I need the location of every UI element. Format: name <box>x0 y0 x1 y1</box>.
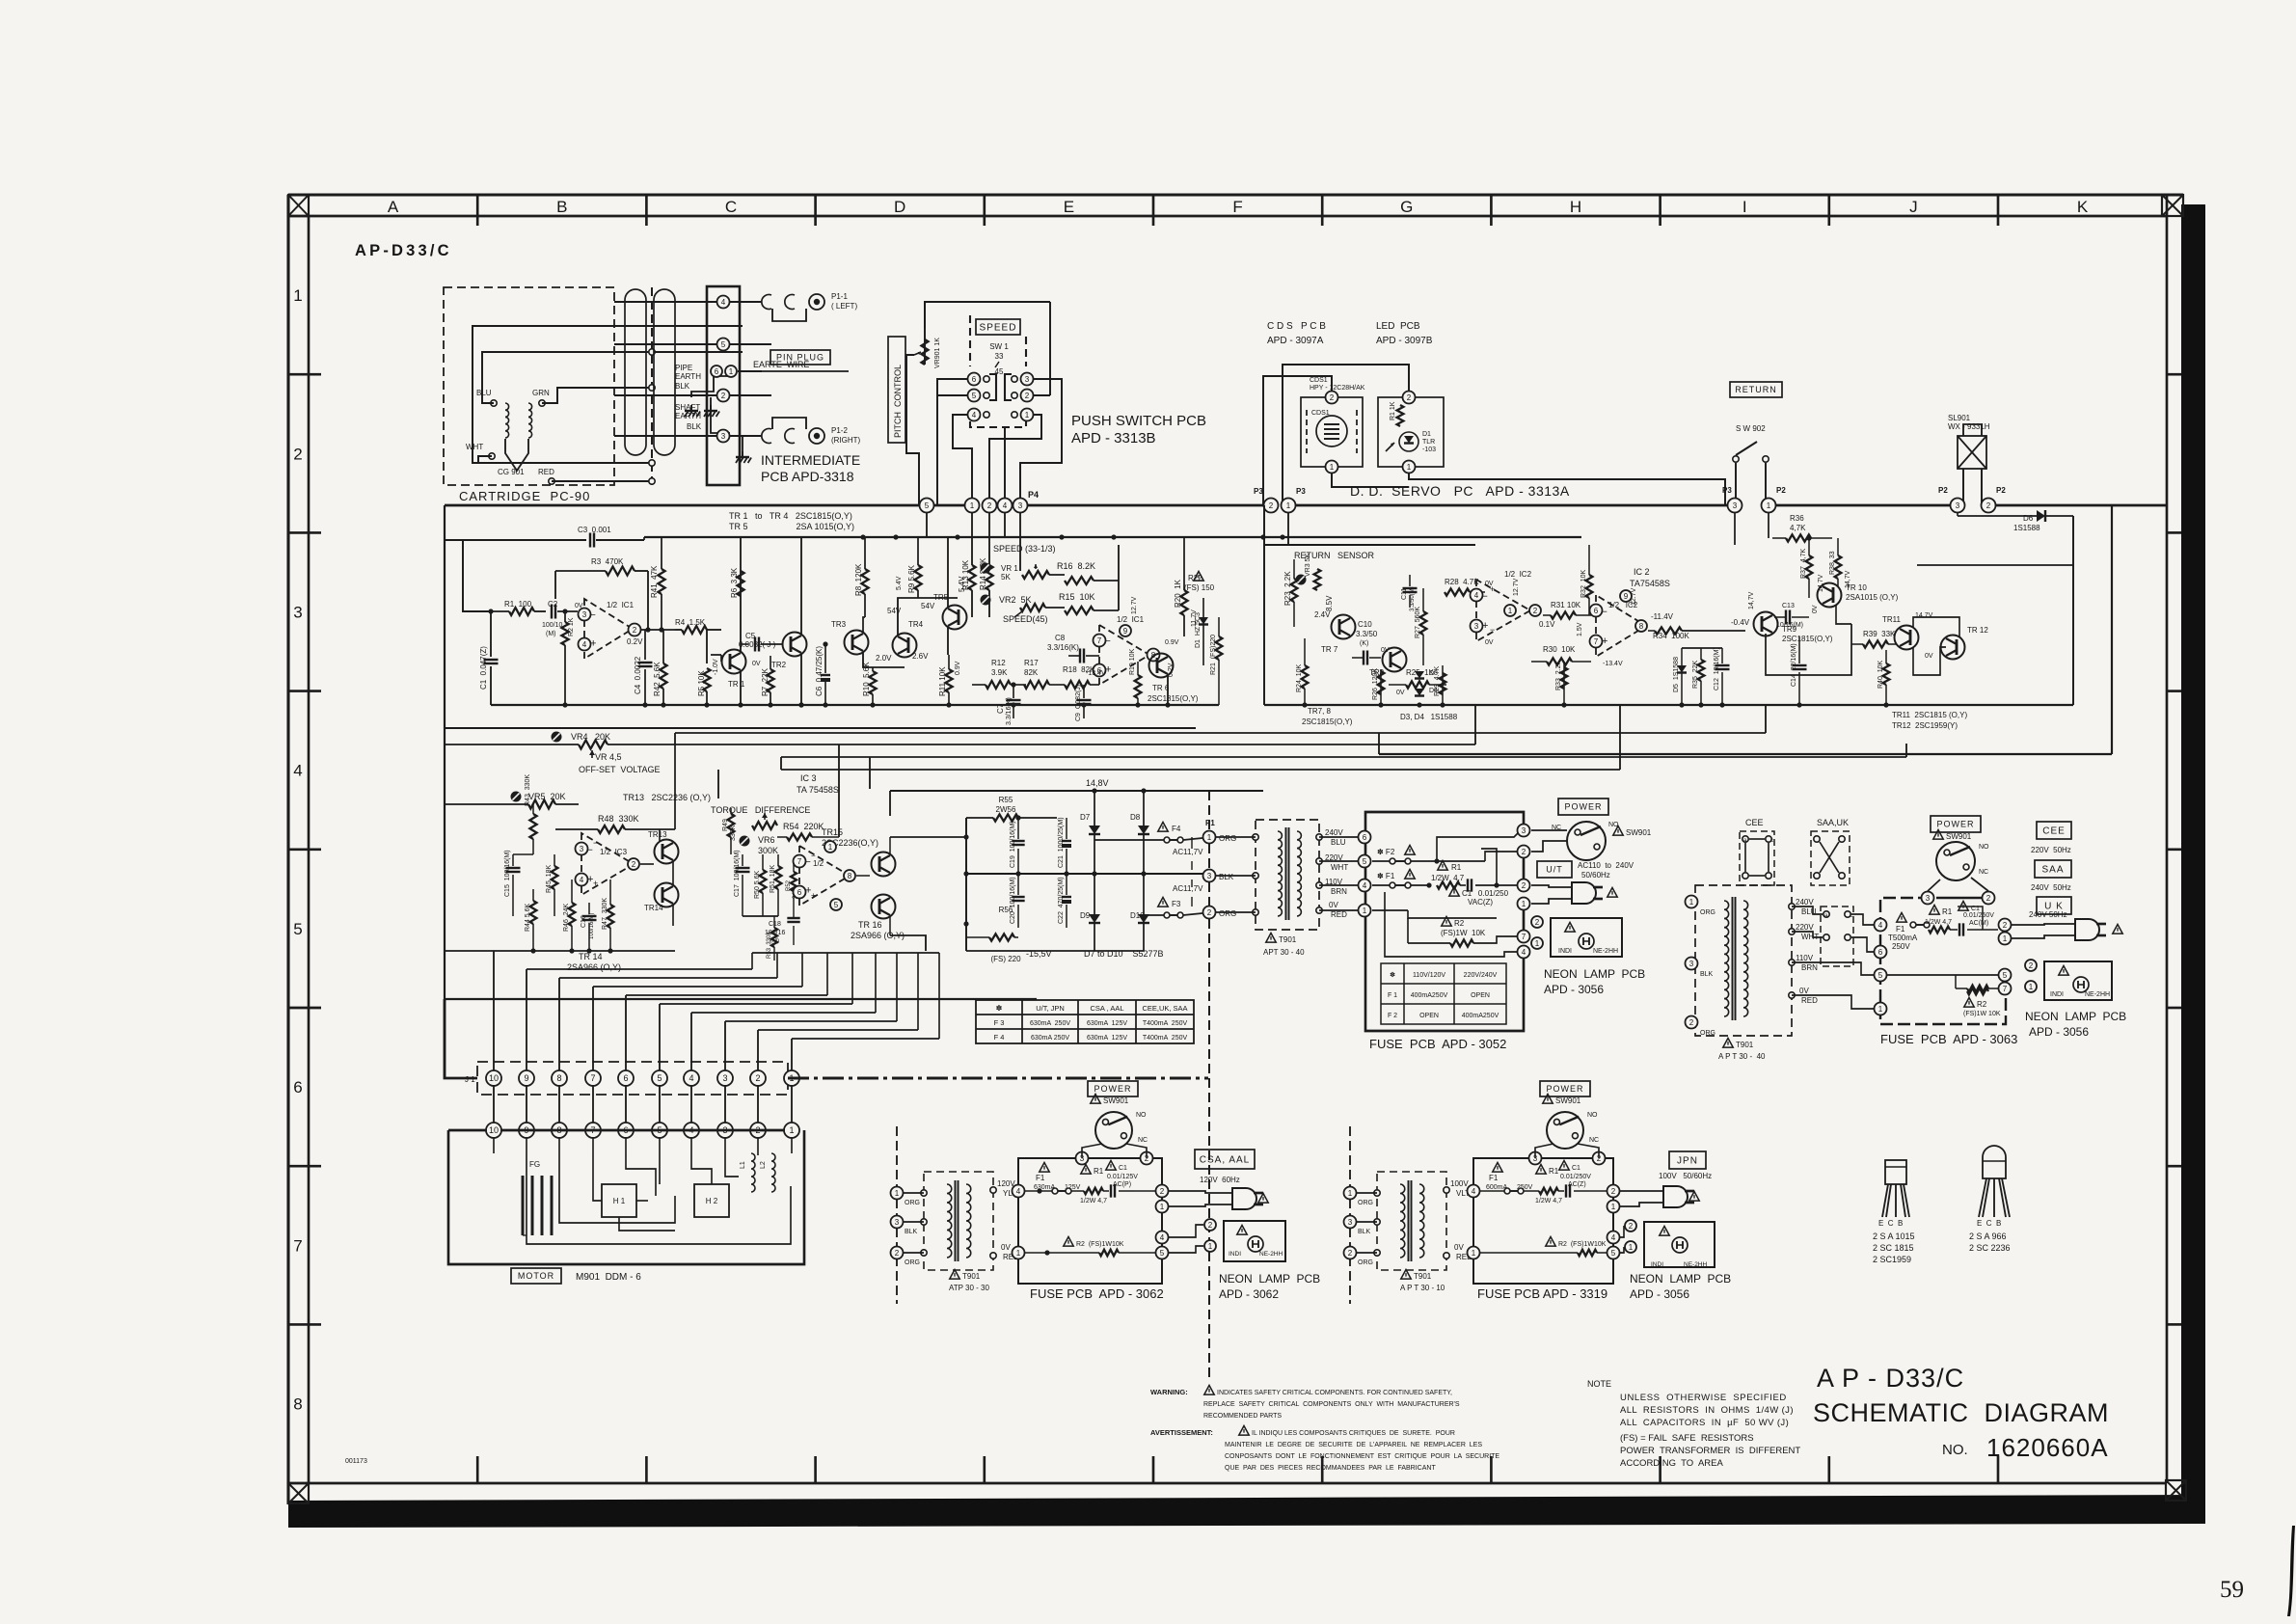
rectifier bottom rail <box>966 950 1144 952</box>
CSA terminals <box>891 1187 904 1200</box>
svg-text:4: 4 <box>582 640 587 649</box>
svg-text:T901: T901 <box>962 1272 981 1281</box>
svg-text:3.3/16(K): 3.3/16(K) <box>1006 697 1013 725</box>
fan horizontal collectors <box>527 968 752 970</box>
connector P4 pin 1 <box>965 499 980 513</box>
svg-text:TR4: TR4 <box>908 620 924 629</box>
svg-text:IL INDIQU LES COMPOSANTS CRITI: IL INDIQU LES COMPOSANTS CRITIQUES DE SU… <box>1252 1430 1455 1437</box>
plug JPN <box>1663 1186 1688 1207</box>
svg-text:WHT: WHT <box>466 443 483 451</box>
svg-text:2: 2 <box>1207 908 1212 917</box>
svg-text:1: 1 <box>1016 1249 1021 1258</box>
svg-text:TR 7: TR 7 <box>1321 645 1338 654</box>
svg-text:INDI: INDI <box>1229 1251 1241 1258</box>
svg-text:3: 3 <box>895 1218 900 1227</box>
svg-text:2SA1015 (O,Y): 2SA1015 (O,Y) <box>1846 593 1899 602</box>
svg-text:OPEN: OPEN <box>1419 1013 1439 1019</box>
fuse rect JPN <box>1473 1158 1613 1284</box>
power switch SW901 main <box>1567 822 1606 860</box>
chain column CSA <box>896 1126 898 1304</box>
shield oval left <box>625 289 646 455</box>
svg-text:2SA966 (O,Y): 2SA966 (O,Y) <box>567 962 621 972</box>
mid drops to fan collectors <box>867 951 869 969</box>
svg-text:0V: 0V <box>1001 1243 1011 1252</box>
svg-text:630mA 250V: 630mA 250V <box>1031 1035 1069 1042</box>
R1 CSA <box>1081 1165 1091 1175</box>
svg-text:AVERTISSEMENT:: AVERTISSEMENT: <box>1150 1428 1213 1437</box>
svg-text:2: 2 <box>987 501 992 510</box>
label SAA 240V 50Hz <box>2035 860 2071 878</box>
svg-text:L2: L2 <box>760 1161 767 1169</box>
servo right boundary <box>2111 505 2113 754</box>
transformer T901 APT30-40 dashed box <box>1256 820 1319 930</box>
connector P4 pin 4 <box>998 499 1013 513</box>
fuse selection table F3 F4 <box>976 1000 1194 1043</box>
svg-text:8: 8 <box>293 1395 302 1414</box>
svg-text:R16 8.2K: R16 8.2K <box>1057 561 1095 571</box>
svg-text:0V: 0V <box>752 661 761 667</box>
svg-text:3: 3 <box>582 610 587 619</box>
svg-text:ORG: ORG <box>1219 909 1236 918</box>
svg-text:A: A <box>388 198 399 216</box>
svg-text:M901 DDM - 6: M901 DDM - 6 <box>576 1272 641 1283</box>
svg-text:POWER: POWER <box>1936 820 1974 829</box>
svg-text:ORG: ORG <box>905 1259 920 1266</box>
svg-text:POWER: POWER <box>1564 802 1602 812</box>
svg-text:4: 4 <box>580 876 584 884</box>
svg-text:OFF-SET VOLTAGE: OFF-SET VOLTAGE <box>579 765 661 774</box>
svg-text:BLK: BLK <box>675 382 690 391</box>
svg-text:NOTE: NOTE <box>1587 1379 1611 1389</box>
svg-text:1: 1 <box>1208 1242 1213 1251</box>
svg-text:EARTH: EARTH <box>675 372 701 381</box>
transistor TR4 <box>893 634 917 658</box>
svg-text:R43 330K: R43 330K <box>525 774 531 806</box>
svg-text:2: 2 <box>1629 1222 1634 1231</box>
svg-text:2: 2 <box>1269 501 1274 510</box>
svg-text:APD - 3062: APD - 3062 <box>1219 1287 1279 1301</box>
LED arrow mark <box>1386 443 1394 451</box>
svg-text:3: 3 <box>1207 872 1212 880</box>
svg-text:R21 (FS)220: R21 (FS)220 <box>1210 635 1217 675</box>
svg-text:(K): (K) <box>1360 640 1368 647</box>
RCA jack P1-1 <box>809 294 824 310</box>
svg-text:4: 4 <box>721 298 726 307</box>
svg-text:AC110 to 240V: AC110 to 240V <box>1578 861 1634 870</box>
svg-text:NO.: NO. <box>1942 1442 1968 1458</box>
svg-text:F 3: F 3 <box>994 1018 1005 1027</box>
JPN terminals <box>1344 1187 1357 1200</box>
svg-text:5: 5 <box>972 392 977 400</box>
svg-text:SPEED(45): SPEED(45) <box>1003 614 1048 624</box>
chain line P1 column <box>1208 791 1210 830</box>
svg-text:3: 3 <box>1956 501 1960 510</box>
label SPEED box <box>976 319 1020 335</box>
svg-text:001173: 001173 <box>345 1458 367 1465</box>
svg-text:S W 902: S W 902 <box>1736 424 1766 433</box>
screw VR6 <box>740 836 750 847</box>
svg-text:VR 1: VR 1 <box>1001 564 1018 573</box>
svg-text:R15 10K: R15 10K <box>1059 592 1095 602</box>
svg-text:R56: R56 <box>999 906 1013 914</box>
svg-text:AC11,7V: AC11,7V <box>1173 848 1203 856</box>
row grid ticks right <box>2167 373 2181 376</box>
svg-text:CEE,UK, SAA: CEE,UK, SAA <box>1142 1004 1187 1013</box>
resistor R1 3063 <box>1930 906 1939 915</box>
svg-text:PUSH SWITCH PCB: PUSH SWITCH PCB <box>1071 413 1206 429</box>
svg-text:−: − <box>1490 625 1495 635</box>
svg-text:2: 2 <box>1522 881 1526 890</box>
svg-text:MAINTENIR LE DEGRE DE SECU: MAINTENIR LE DEGRE DE SECURITE DE L'APPA… <box>1225 1442 1482 1448</box>
wire speed net vertical 1160 <box>1118 544 1120 546</box>
svg-text:5: 5 <box>1878 971 1883 980</box>
label MOTOR M901 DDM-6 <box>511 1268 561 1284</box>
svg-text:7: 7 <box>293 1236 302 1255</box>
svg-text:R2 1K: R2 1K <box>568 617 575 636</box>
svg-text:2SC1815(O,Y): 2SC1815(O,Y) <box>1782 635 1833 643</box>
svg-text:R3 470K: R3 470K <box>591 557 624 566</box>
svg-text:1620660A: 1620660A <box>1986 1433 2109 1462</box>
pot VR901 1K <box>922 339 929 365</box>
POWER box CSA <box>1088 1081 1138 1096</box>
chain riser from servo right to power <box>2072 705 2074 757</box>
svg-text:59: 59 <box>2220 1577 2244 1603</box>
svg-text:ALL CAPACITORS IN µF 50 WV: ALL CAPACITORS IN µF 50 WV (J) <box>1620 1418 1789 1428</box>
wire IC3 out to caps <box>890 836 966 838</box>
wire bundle right servo to bottom <box>1765 732 1767 734</box>
fuse F1 JPN <box>1493 1163 1502 1173</box>
svg-text:BLK: BLK <box>1700 971 1714 978</box>
screw VR3 <box>1296 575 1307 585</box>
bottom black margin bar <box>288 1495 2205 1528</box>
svg-text:R2 (FS)1W10K: R2 (FS)1W10K <box>1558 1241 1607 1248</box>
svg-text:OPEN: OPEN <box>1471 992 1490 999</box>
svg-text:F 4: F 4 <box>994 1033 1005 1042</box>
svg-text:3: 3 <box>1733 501 1738 510</box>
R2 CSA <box>1064 1237 1073 1247</box>
cartridge wire RED <box>552 480 652 482</box>
bus risers <box>1765 705 1767 733</box>
plug main <box>1572 882 1596 904</box>
svg-text:240V: 240V <box>1325 828 1343 837</box>
svg-text:R55: R55 <box>999 796 1013 804</box>
connect rails left <box>444 728 446 744</box>
svg-text:5: 5 <box>721 340 726 349</box>
svg-text:R2: R2 <box>1977 1000 1987 1009</box>
svg-text:P3: P3 <box>1254 487 1263 496</box>
svg-text:A P T 30 - 10: A P T 30 - 10 <box>1400 1284 1445 1292</box>
cable loops P1-1 <box>762 294 771 309</box>
C1 JPN <box>1559 1161 1569 1171</box>
svg-text:2: 2 <box>1535 918 1540 927</box>
svg-text:2: 2 <box>721 392 726 400</box>
wire P2-1 down <box>1768 513 1769 538</box>
svg-text:4,7K: 4,7K <box>1790 524 1806 532</box>
svg-text:TR 12: TR 12 <box>1967 626 1988 635</box>
svg-text:C8: C8 <box>1055 634 1066 642</box>
connector P4 pin 3 <box>1013 499 1028 513</box>
svg-text:9: 9 <box>524 1073 528 1083</box>
switch contact 6 <box>968 373 981 386</box>
svg-text:1: 1 <box>729 367 734 376</box>
transistor TR14 <box>655 883 679 907</box>
connector P2 pins 3 2 far right <box>1951 499 1965 513</box>
node column dashed at 676 <box>651 287 653 485</box>
R2 JPN <box>1546 1237 1555 1247</box>
svg-text:TR3: TR3 <box>831 620 847 629</box>
transistor package TO-92L <box>1983 1146 2006 1178</box>
neon lamp PCB 3056 box <box>1551 918 1622 957</box>
label CEE 220V 50Hz <box>2037 822 2071 839</box>
svg-text:7: 7 <box>1594 637 1599 646</box>
svg-text:R28 4.7K: R28 4.7K <box>1445 578 1479 586</box>
drop from 1264 down <box>1218 705 1220 728</box>
svg-text:HPY - 12C28H/AK: HPY - 12C28H/AK <box>1310 385 1365 392</box>
svg-text:P2: P2 <box>1776 486 1786 495</box>
svg-text:APD - 3097B: APD - 3097B <box>1376 336 1433 346</box>
transistor TR15 <box>872 853 896 877</box>
svg-text:2: 2 <box>2029 961 2034 970</box>
switch contact 4 <box>968 409 981 421</box>
svg-text:0V: 0V <box>1329 901 1338 909</box>
table in fuse pcb 3052 <box>1381 963 1506 1024</box>
CDS1 cell box <box>1301 397 1363 467</box>
svg-text:2: 2 <box>895 1249 900 1258</box>
svg-text:TR 10: TR 10 <box>1846 583 1867 592</box>
connector J1 dashed box <box>477 1062 788 1095</box>
wire VR loop <box>674 744 676 829</box>
svg-text:2: 2 <box>1407 393 1412 402</box>
svg-text:4: 4 <box>1611 1233 1616 1242</box>
svg-text:F1: F1 <box>1489 1174 1499 1182</box>
svg-text:NEON LAMP PCB: NEON LAMP PCB <box>1544 967 1645 981</box>
svg-text:TR14: TR14 <box>644 904 663 912</box>
svg-text:2: 2 <box>1533 607 1538 615</box>
svg-text:1: 1 <box>1522 900 1526 908</box>
corner register mark bottom-right <box>2166 1480 2186 1501</box>
transistor TR11 <box>1895 626 1919 650</box>
svg-text:(FS)1W 10K: (FS)1W 10K <box>1963 1011 2001 1017</box>
connector P4 pin 5 <box>920 499 934 513</box>
T901 right taps <box>1316 834 1322 840</box>
heater H1 box <box>602 1184 636 1217</box>
svg-text:3: 3 <box>722 1073 727 1083</box>
svg-text:2: 2 <box>1986 894 1991 903</box>
svg-text:1: 1 <box>789 1125 794 1135</box>
svg-text:BRN: BRN <box>1331 887 1347 896</box>
right rail bottom <box>1264 704 2073 706</box>
svg-text:1: 1 <box>1535 939 1540 948</box>
svg-text:ORG: ORG <box>1358 1259 1373 1266</box>
motor connector bus <box>500 1129 785 1132</box>
svg-text:B: B <box>556 198 567 216</box>
svg-text:R1 100: R1 100 <box>504 600 532 609</box>
svg-text:AC(M): AC(M) <box>1969 920 1988 927</box>
svg-text:4: 4 <box>1363 881 1367 890</box>
svg-text:VAC(Z): VAC(Z) <box>1468 898 1493 907</box>
diodes D3 D4 <box>1415 671 1424 679</box>
label UK 240V 50Hz <box>2037 897 2071 914</box>
power transformer T901 winding <box>1400 1184 1405 1258</box>
svg-text:2: 2 <box>1986 501 1991 510</box>
svg-text:2 SC 2236: 2 SC 2236 <box>1969 1243 2011 1253</box>
switch bars <box>989 374 996 400</box>
svg-text:PCB APD-3318: PCB APD-3318 <box>761 469 854 484</box>
svg-text:0V: 0V <box>1799 987 1809 995</box>
svg-text:F4: F4 <box>1172 825 1181 833</box>
svg-text:C13: C13 <box>1782 603 1795 609</box>
svg-text:1/2 IC1: 1/2 IC1 <box>607 601 635 609</box>
right transformer dashed box <box>1695 885 1792 1036</box>
svg-text:5: 5 <box>834 901 839 909</box>
svg-text:2SC1815(O,Y): 2SC1815(O,Y) <box>1148 694 1199 703</box>
svg-text:50/60Hz: 50/60Hz <box>1581 871 1610 880</box>
svg-text:R20 1K: R20 1K <box>1174 579 1182 608</box>
servo mid vertical wires <box>1270 513 1272 545</box>
svg-text:0.01/250V: 0.01/250V <box>1560 1174 1591 1180</box>
op-amp IC1 first half <box>584 599 633 659</box>
svg-text:K: K <box>2077 198 2089 216</box>
mid join rails torque <box>675 828 731 830</box>
svg-text:110V: 110V <box>1796 954 1814 962</box>
svg-text:8.5V: 8.5V <box>1325 595 1334 611</box>
corner register mark top-right <box>2162 195 2183 216</box>
transistor TR6 <box>1149 654 1174 678</box>
svg-text:D7: D7 <box>1080 813 1091 822</box>
svg-text:1: 1 <box>1286 501 1291 510</box>
svg-text:SW901: SW901 <box>1103 1096 1129 1105</box>
speed switch wiring right <box>1020 379 1062 505</box>
svg-text:R1: R1 <box>1094 1167 1104 1176</box>
svg-text:TR 5 2SA 10: TR 5 2SA 1015(O,Y) <box>729 522 854 531</box>
motor internal wires <box>493 1137 495 1153</box>
svg-text:T901: T901 <box>1279 935 1297 944</box>
svg-text:INDI: INDI <box>1558 948 1572 955</box>
svg-text:4: 4 <box>689 1073 693 1083</box>
svg-text:3: 3 <box>1018 501 1023 510</box>
svg-text:R17: R17 <box>1024 659 1039 667</box>
svg-text:NE-2HH: NE-2HH <box>1684 1261 1708 1268</box>
svg-text:1: 1 <box>970 501 975 510</box>
svg-text:SW901: SW901 <box>1946 832 1972 841</box>
svg-text:0.9V: 0.9V <box>1165 639 1179 646</box>
svg-text:(FS) 150: (FS) 150 <box>1184 583 1215 592</box>
svg-text:U/T, JPN: U/T, JPN <box>1036 1004 1065 1013</box>
shaft earth ground <box>710 405 712 411</box>
connector P4 pin 2 <box>983 499 997 513</box>
svg-text:630mA 125V: 630mA 125V <box>1087 1035 1127 1042</box>
connector P3 pin 3 right <box>1728 499 1742 513</box>
right T901 label <box>1723 1039 1733 1048</box>
fuse PCB APD-3052 outline <box>1365 812 1524 830</box>
svg-text:R1: R1 <box>1942 907 1953 916</box>
POWER box JPN <box>1540 1081 1590 1096</box>
resistor R2 3063 <box>1964 998 1974 1008</box>
svg-text:NC: NC <box>1138 1137 1148 1144</box>
transistor TR3 <box>845 631 869 655</box>
cap C1 3063 <box>1958 902 1968 911</box>
svg-text:R32 10K: R32 10K <box>1580 569 1587 598</box>
speed dashed enclosure <box>969 315 971 366</box>
svg-text:3: 3 <box>1025 375 1030 384</box>
ground below connector <box>742 451 743 457</box>
svg-text:1: 1 <box>1878 1005 1883 1014</box>
svg-text:2: 2 <box>293 445 302 463</box>
svg-text:ORG: ORG <box>905 1200 920 1206</box>
svg-text:1: 1 <box>1472 1249 1476 1258</box>
svg-text:2: 2 <box>1522 848 1526 856</box>
svg-text:-1.0V: -1.0V <box>713 659 719 675</box>
svg-text:SL901: SL901 <box>1948 414 1971 422</box>
svg-text:APT 30 - 40: APT 30 - 40 <box>1263 948 1305 957</box>
svg-text:R19 10K: R19 10K <box>1129 648 1136 675</box>
svg-text:C10: C10 <box>1358 620 1372 629</box>
neon lamp PCB 3063 box <box>2044 961 2112 1000</box>
svg-text:0.9V: 0.9V <box>955 661 961 675</box>
svg-text:4: 4 <box>293 762 302 780</box>
svg-text:VR6: VR6 <box>758 835 775 845</box>
transistor TR1 <box>722 650 746 674</box>
motor block outline <box>448 1130 804 1264</box>
svg-text:P4: P4 <box>1028 490 1039 500</box>
svg-text:300K: 300K <box>758 846 778 855</box>
svg-text:C21 1000/25(M): C21 1000/25(M) <box>1058 817 1065 868</box>
intermediate PCB connector body <box>707 286 740 485</box>
svg-text:4: 4 <box>972 411 977 420</box>
transistor TR7 <box>1332 615 1356 639</box>
svg-text:SW901: SW901 <box>1626 828 1652 837</box>
label U/T box <box>1537 861 1572 878</box>
svg-text:E C B: E C B <box>1878 1219 1903 1228</box>
svg-text:1: 1 <box>2029 983 2034 991</box>
cartridge coil right <box>528 403 532 438</box>
svg-text:TR 14: TR 14 <box>579 952 603 961</box>
vertical drops from amp bottom <box>493 728 495 951</box>
svg-text:SCHEMATIC DIAGRAM: SCHEMATIC DIAGRAM <box>1813 1398 2109 1427</box>
svg-text:2: 2 <box>1689 1018 1694 1027</box>
main box bottom rail <box>445 998 1037 1000</box>
svg-text:ORG: ORG <box>1219 834 1236 843</box>
svg-text:CDS1: CDS1 <box>1310 377 1328 384</box>
svg-text:+: + <box>593 879 598 888</box>
svg-text:VR3 5K: VR3 5K <box>1305 554 1311 577</box>
J1 right heavy wire chain to P1 <box>788 1076 1208 1079</box>
corner register mark bottom-left <box>288 1483 309 1503</box>
svg-text:240V: 240V <box>1796 898 1814 907</box>
wires jumpers to fuse 3063 <box>1851 914 1874 925</box>
switch contact 5 <box>968 390 981 402</box>
rectifier mid rail <box>966 873 1203 875</box>
second bottom rail <box>445 727 1196 729</box>
svg-text:BLK: BLK <box>1358 1229 1371 1235</box>
svg-text:(RIGHT): (RIGHT) <box>831 436 861 445</box>
svg-text:1/2W 4,7: 1/2W 4,7 <box>1431 874 1465 882</box>
svg-text:CEE: CEE <box>2042 826 2066 837</box>
svg-text:1: 1 <box>1629 1243 1634 1252</box>
svg-text:12.7V: 12.7V <box>1131 596 1138 614</box>
return sensor rail <box>1264 544 1475 546</box>
svg-text:F 2: F 2 <box>1388 1013 1397 1019</box>
svg-text:NO: NO <box>1587 1112 1598 1119</box>
risers into torque section <box>717 770 719 829</box>
svg-text:R37 4,7K: R37 4,7K <box>1800 549 1807 579</box>
svg-text:-11.4V: -11.4V <box>1651 612 1674 621</box>
svg-text:POWER: POWER <box>1546 1084 1583 1094</box>
svg-text:3.3/16(K): 3.3/16(K) <box>1047 643 1079 652</box>
svg-text:4: 4 <box>1003 501 1008 510</box>
column grid ticks bottom <box>476 1456 479 1483</box>
op-amp IC3 first half <box>581 833 634 895</box>
